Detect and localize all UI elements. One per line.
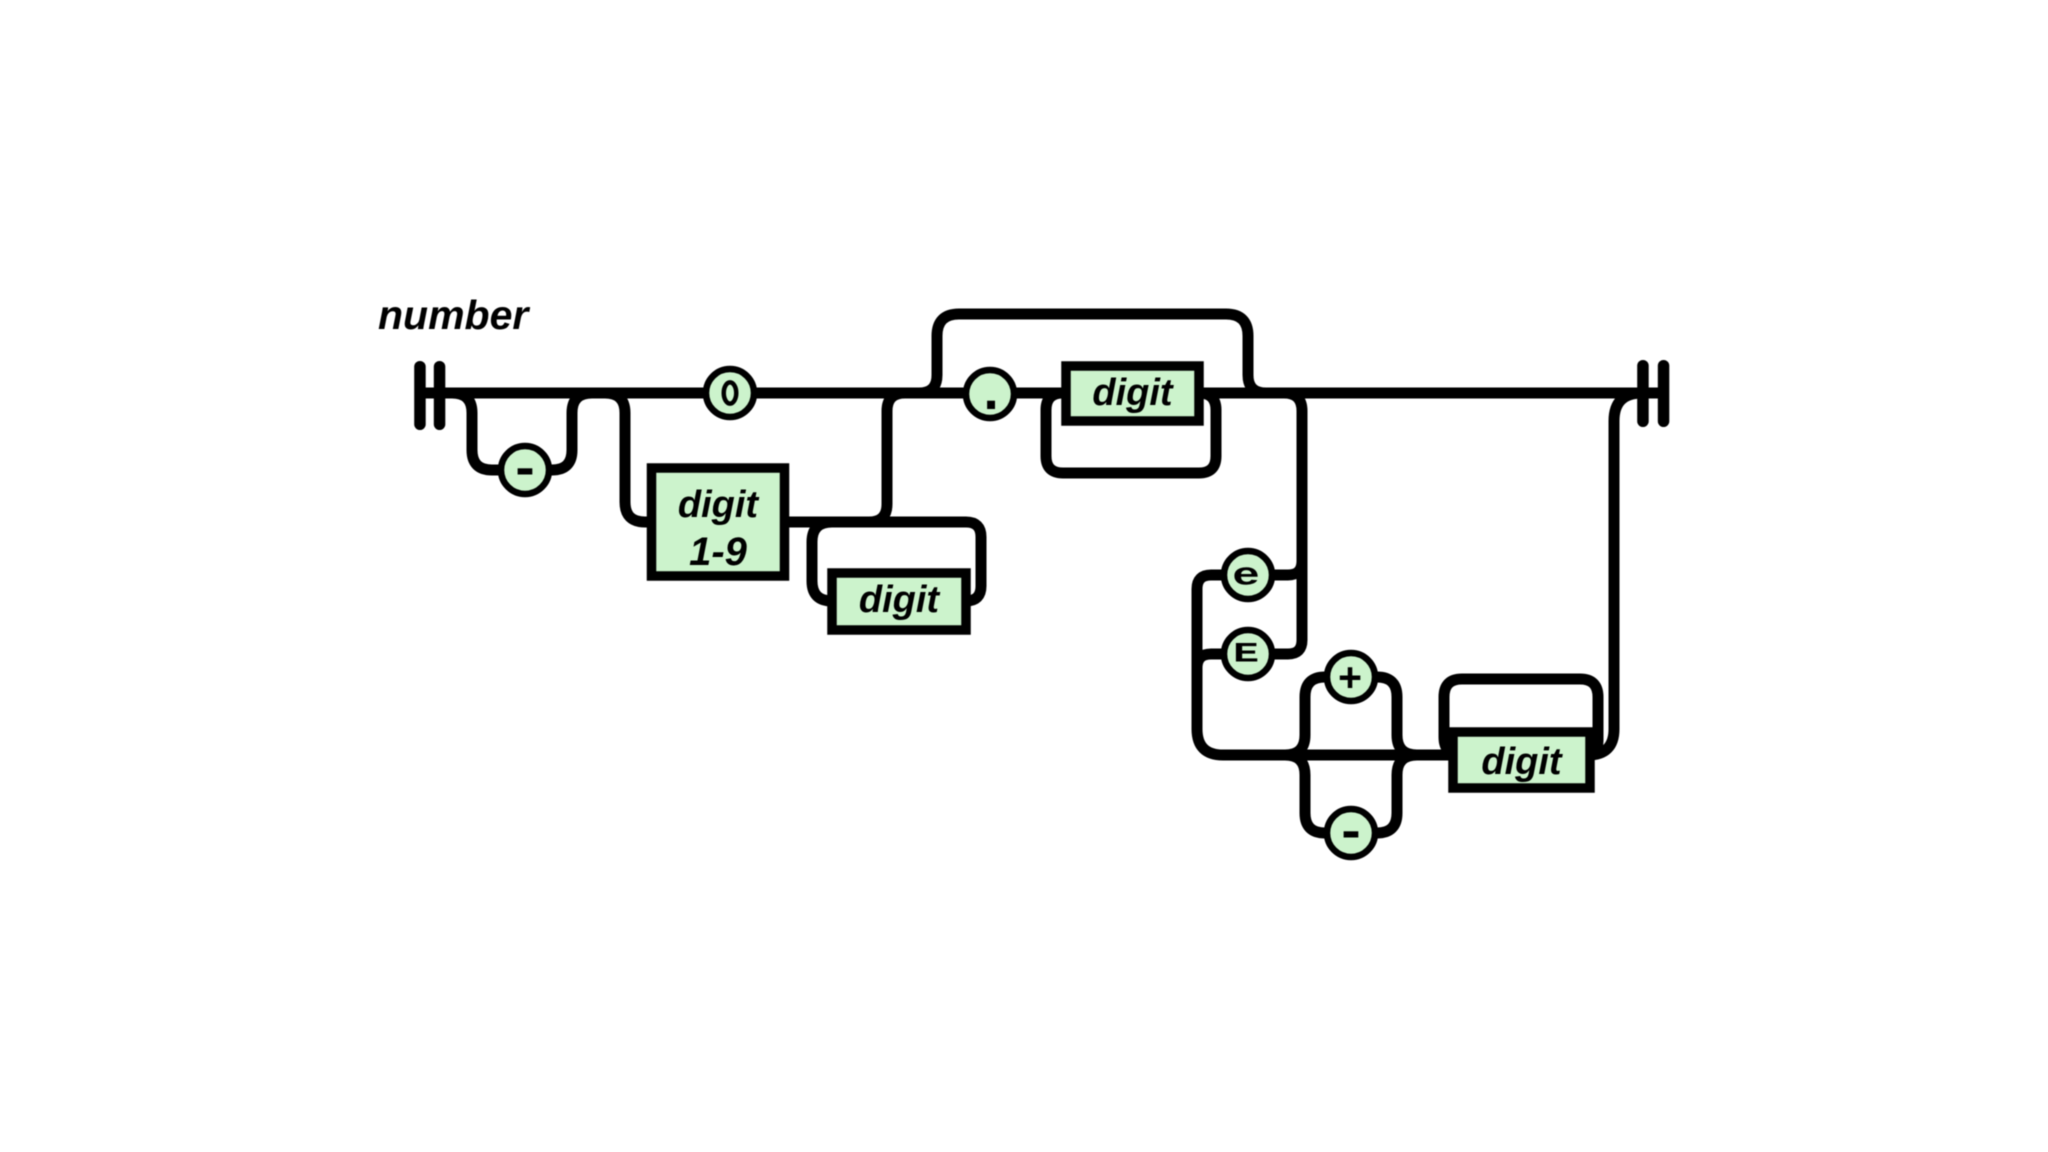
wire riser to main line	[869, 393, 905, 522]
svg-text:digit: digit	[1481, 741, 1563, 783]
terminal circle decimal point	[966, 362, 1014, 426]
wire minus option up branch	[538, 393, 592, 470]
wire digit1-9 branch down	[605, 393, 656, 522]
wire minus branch right	[1367, 755, 1417, 833]
box integer digit	[832, 573, 966, 630]
terminal circle e	[1224, 551, 1272, 599]
svg-text:digit: digit	[1092, 372, 1174, 414]
svg-text:+: +	[1338, 658, 1363, 704]
svg-text:-: -	[1335, 805, 1366, 864]
wire spur to e	[1262, 561, 1302, 575]
svg-text:E: E	[1233, 638, 1259, 669]
start terminal	[414, 361, 445, 430]
svg-text:.: .	[974, 362, 1008, 426]
svg-text:digit: digit	[859, 579, 941, 621]
wire plus branch right	[1367, 677, 1417, 755]
svg-text:-: -	[509, 442, 540, 501]
wire main line	[420, 388, 1668, 399]
svg-text:digit: digit	[678, 484, 760, 526]
wire exit riser to end	[1588, 393, 1642, 755]
terminal circle plus sign	[1327, 653, 1375, 704]
box digit 1-9	[652, 468, 785, 576]
svg-text:1-9: 1-9	[689, 530, 748, 574]
terminal circle zero	[706, 369, 754, 417]
wire exponent merge vertical	[1197, 589, 1223, 755]
wire minus option down branch	[452, 393, 512, 470]
wire exponent branch down	[1262, 393, 1302, 654]
wire digit1-9 exit	[784, 517, 966, 528]
end terminal	[1637, 360, 1669, 427]
svg-text:number: number	[378, 292, 530, 338]
box fraction digit	[1066, 366, 1199, 421]
wire sign row	[1223, 750, 1455, 761]
terminal circle E	[1224, 630, 1272, 678]
wire exponent digit repeat loop	[1444, 679, 1598, 755]
wire E exit	[1197, 654, 1234, 668]
wire fraction bypass	[919, 314, 1266, 393]
wire integer digit repeat loop	[812, 522, 981, 601]
wire e exit	[1197, 575, 1234, 589]
terminal circle minus sign exponent	[1327, 805, 1375, 864]
box exponent digit	[1453, 732, 1590, 788]
wire minus branch left	[1285, 755, 1335, 833]
wire fraction digit repeat loop	[1046, 393, 1216, 473]
wire plus branch left	[1285, 677, 1335, 755]
terminal circle minus sign	[501, 442, 549, 501]
svg-text:e: e	[1232, 558, 1260, 594]
